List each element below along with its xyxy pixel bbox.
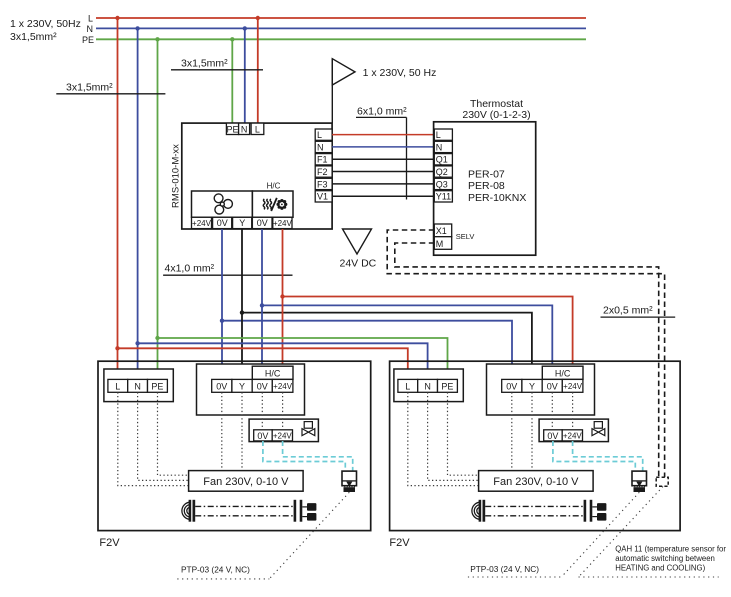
svg-text:Fan 230V, 0-10 V: Fan 230V, 0-10 V: [203, 476, 289, 488]
svg-text:F2V: F2V: [389, 537, 410, 549]
thermostat U2 box: [434, 122, 536, 255]
svg-text:H/C: H/C: [265, 369, 281, 379]
wire F2 to Q2: [332, 171, 434, 173]
unit 1 H/C tab: [252, 366, 293, 379]
terminal RMS F1: [315, 154, 332, 165]
terminal unit1 0V HC: [252, 379, 272, 392]
dotted wire 0V to fan 1: [221, 392, 223, 470]
svg-text:+24V: +24V: [273, 432, 293, 441]
svg-text:PER-08: PER-08: [468, 180, 505, 192]
svg-text:PE: PE: [151, 382, 163, 392]
terminal unit2 Y: [522, 379, 542, 392]
wire cyan valve2 +24V to actuator: [573, 441, 643, 471]
dotted wire L to fan 2: [408, 392, 479, 485]
terminal unit1 0V fan: [212, 379, 232, 392]
svg-text:3x1,5mm²: 3x1,5mm²: [10, 31, 57, 43]
svg-text:0V: 0V: [257, 382, 268, 392]
svg-text:+24V: +24V: [273, 219, 293, 228]
wire F3 to Q3: [332, 183, 434, 185]
unit 2 L/N/PE terminal block: [394, 369, 463, 402]
wire Y drop to unit 1: [240, 229, 244, 379]
unit 1 valve actuator box: [249, 419, 318, 442]
terminal valve1 +24V: [272, 430, 292, 441]
terminal unit2 N: [418, 379, 438, 392]
terminal RMS N right: [315, 141, 332, 152]
node supply flag 1x230V 50Hz: [332, 59, 436, 123]
wire N drop to unit 1: [135, 26, 139, 380]
terminal unit2 +24V: [562, 379, 583, 392]
terminal RMS N top: [239, 123, 250, 134]
dotted wire L to fan 1: [118, 392, 189, 485]
wire PE drop to unit 1: [155, 37, 159, 380]
svg-text:H/C: H/C: [267, 182, 281, 191]
dotted wire Y to fan 2: [531, 392, 533, 470]
block RMS fan output: [192, 191, 253, 217]
dotted wire +24V to valve 2: [572, 392, 574, 430]
label mains supply: [10, 18, 81, 43]
terminal unit2 0V HC: [542, 379, 562, 392]
svg-text:4x1,0 mm²: 4x1,0 mm²: [165, 263, 215, 275]
svg-text:0V: 0V: [547, 431, 558, 441]
terminal RMS L right: [315, 129, 332, 140]
svg-text:Y: Y: [529, 382, 535, 392]
dotted wire PE to fan 2: [448, 392, 479, 475]
unit 1 L/N/PE terminal block: [104, 369, 173, 402]
wire F1 to Q1: [332, 158, 434, 160]
svg-text:230V (0-1-2-3): 230V (0-1-2-3): [462, 109, 530, 121]
terminal RMS Y: [233, 217, 252, 228]
icon valve 1: [302, 422, 315, 436]
svg-text:3x1,5mm²: 3x1,5mm²: [66, 82, 113, 94]
fan coil unit 1 box: [98, 361, 371, 530]
icon heating coil and cooling flower: [263, 198, 287, 211]
svg-text:0V: 0V: [217, 218, 228, 228]
svg-text:0V: 0V: [547, 382, 558, 392]
svg-text:PE: PE: [226, 124, 238, 134]
terminal unit2 PE: [438, 379, 458, 392]
wire L drop to RMS: [256, 16, 260, 124]
svg-text:0V: 0V: [216, 382, 227, 392]
terminal RMS F2: [315, 166, 332, 177]
terminal RMS V1: [315, 191, 332, 202]
svg-text:Y: Y: [239, 218, 245, 228]
sensor QAH 11 box: [656, 477, 668, 486]
svg-text:0V: 0V: [257, 218, 268, 228]
wire +24V drop to unit 1: [280, 229, 284, 379]
label thermostat models: [468, 168, 526, 204]
svg-text:+24V: +24V: [192, 219, 212, 228]
svg-text:Fan 230V, 0-10 V: Fan 230V, 0-10 V: [493, 476, 579, 488]
heating element unit 1: [182, 500, 317, 522]
label thermostat: [462, 98, 530, 121]
wire L bus: [96, 17, 586, 19]
wire PE bus: [96, 38, 586, 40]
dotted leader to QAH 11: [579, 487, 719, 578]
svg-text:F1: F1: [317, 155, 328, 165]
svg-text:3x1,5mm²: 3x1,5mm²: [181, 58, 228, 70]
svg-text:X1: X1: [436, 226, 447, 236]
svg-text:L: L: [115, 382, 120, 392]
dotted wire N to fan 1: [138, 392, 189, 480]
wire N bus: [96, 27, 586, 29]
svg-text:QAH 11 (temperature sensor for: QAH 11 (temperature sensor for: [615, 545, 726, 554]
svg-text:1 x 230V, 50 Hz: 1 x 230V, 50 Hz: [363, 67, 437, 79]
svg-text:N: N: [87, 24, 94, 34]
svg-text:PE: PE: [82, 35, 94, 45]
wire N drop to RMS: [243, 26, 247, 124]
wire 0V fan branch to unit 2: [222, 321, 512, 380]
wire V1 to Y11: [332, 195, 434, 197]
label cable 6x1,0 mm2: [356, 106, 407, 200]
svg-text:1 x 230V, 50Hz: 1 x 230V, 50Hz: [10, 18, 81, 30]
svg-text:6x1,0 mm²: 6x1,0 mm²: [357, 106, 407, 118]
terminal thermostat L: [434, 129, 452, 140]
dotted leader to PTP-03 unit 2: [468, 492, 639, 577]
terminal RMS F3: [315, 178, 332, 189]
svg-text:L: L: [255, 124, 260, 134]
terminal valve2 0V: [544, 430, 563, 441]
fan 1 box: [189, 471, 304, 492]
wire 0V HC drop to unit 1: [260, 229, 264, 379]
wire +24V branch to unit 2: [283, 297, 573, 380]
terminal thermostat Q3: [434, 178, 452, 189]
icon fan propeller: [214, 194, 232, 214]
label cable 3x1,5mm2 to unit 1: [56, 82, 165, 94]
wire N branch to unit 2: [135, 341, 427, 379]
svg-text:24V DC: 24V DC: [340, 258, 377, 270]
terminal valve1 0V: [254, 430, 273, 441]
dotted wire N to fan 2: [428, 392, 479, 480]
terminal thermostat Q2: [434, 166, 452, 177]
wire PE drop to RMS: [230, 37, 234, 124]
svg-text:N: N: [424, 382, 431, 392]
terminal unit1 N: [128, 379, 148, 392]
svg-text:Q1: Q1: [436, 155, 448, 165]
fan coil unit 2 box: [390, 361, 680, 530]
wire cyan valve1 0V to actuator: [263, 441, 345, 471]
terminal RMS +24V left: [192, 217, 212, 228]
svg-text:L: L: [436, 130, 441, 140]
svg-text:PER-07: PER-07: [468, 168, 505, 180]
block RMS heat/cool output: [252, 191, 293, 217]
svg-text:PTP-03 (24 V, NC): PTP-03 (24 V, NC): [470, 564, 539, 574]
svg-text:HEATING and COOLING): HEATING and COOLING): [615, 564, 705, 573]
fan 2 box: [479, 471, 593, 492]
svg-text:F2: F2: [317, 167, 328, 177]
svg-text:V1: V1: [317, 192, 328, 202]
wire 0V HC branch to unit 2: [262, 305, 552, 379]
wire SELV X1 dashed: [387, 230, 664, 477]
wire cyan valve1 +24V to actuator: [283, 441, 353, 471]
dotted wire 0V to valve 1: [261, 392, 263, 430]
svg-text:L: L: [88, 14, 93, 24]
svg-text:RMS-010-M-xx: RMS-010-M-xx: [171, 144, 182, 208]
wire cyan valve2 0V to actuator: [553, 441, 635, 471]
icon valve 2: [592, 422, 605, 436]
wire PE branch to unit 2: [155, 336, 447, 380]
svg-text:L: L: [405, 382, 410, 392]
svg-text:+24V: +24V: [563, 432, 583, 441]
terminal thermostat Y11: [434, 191, 452, 202]
terminal RMS 0V fan: [213, 217, 232, 228]
svg-text:automatic switching between: automatic switching between: [615, 554, 715, 563]
svg-text:SELV: SELV: [456, 232, 475, 241]
controller U1 RMS-010-M-xx: [171, 123, 333, 229]
svg-text:Q2: Q2: [436, 167, 448, 177]
svg-text:+24V: +24V: [273, 382, 293, 391]
svg-text:Y: Y: [239, 382, 245, 392]
svg-text:N: N: [241, 124, 248, 134]
svg-text:PER-10KNX: PER-10KNX: [468, 192, 526, 204]
wire L RMS to thermostat: [332, 134, 434, 136]
label cable 4x1,0 mm2: [163, 263, 292, 276]
terminal thermostat M: [434, 237, 451, 250]
svg-text:PE: PE: [441, 382, 453, 392]
terminal thermostat Q1: [434, 154, 452, 165]
terminal unit1 +24V: [272, 379, 293, 392]
terminal RMS PE: [226, 123, 238, 134]
svg-text:Q3: Q3: [436, 179, 448, 189]
svg-text:F3: F3: [317, 179, 328, 189]
wire L branch to unit 2: [115, 346, 408, 379]
dotted wire 0V to valve 2: [551, 392, 553, 430]
svg-text:N: N: [317, 142, 324, 152]
svg-text:N: N: [134, 382, 141, 392]
dotted wire Y to fan 1: [241, 392, 243, 470]
terminal unit1 PE: [148, 379, 168, 392]
actuator PTP-03 unit 1: [342, 471, 357, 492]
terminal RMS 0V HC: [252, 217, 272, 228]
dotted wire PE to fan 1: [158, 392, 189, 475]
terminal unit2 L: [398, 379, 418, 392]
svg-text:0V: 0V: [506, 382, 517, 392]
terminal unit2 0V fan: [502, 379, 522, 392]
unit 1 control terminal block: [197, 364, 305, 415]
svg-text:Y11: Y11: [436, 192, 451, 202]
svg-text:+24V: +24V: [563, 382, 583, 391]
wire L drop to unit 1: [115, 16, 119, 380]
svg-text:F2V: F2V: [99, 537, 120, 549]
svg-text:PTP-03 (24 V, NC): PTP-03 (24 V, NC): [181, 565, 250, 575]
svg-text:N: N: [436, 142, 443, 152]
svg-text:H/C: H/C: [555, 369, 571, 379]
terminal unit1 L: [108, 379, 128, 392]
wire 0V fan drop to unit 1: [220, 229, 224, 379]
unit 2 control terminal block: [487, 364, 595, 415]
terminal valve2 +24V: [562, 430, 582, 441]
wire N RMS to thermostat: [332, 146, 434, 148]
terminal thermostat N: [434, 141, 452, 152]
actuator PTP-03 unit 2: [632, 471, 647, 492]
terminal thermostat X1: [434, 224, 451, 237]
svg-text:0V: 0V: [257, 431, 268, 441]
unit 2 valve actuator box: [539, 419, 608, 442]
node 24V DC symbol: [340, 229, 377, 270]
label cable 3x1,5mm2 to RMS: [171, 58, 263, 70]
dotted wire +24V to valve 1: [282, 392, 284, 430]
label QAH 11 description: [615, 545, 726, 573]
terminal RMS L top: [251, 123, 264, 134]
terminal RMS +24V HC: [273, 217, 293, 228]
wire SELV M dashed: [395, 243, 659, 477]
svg-text:L: L: [317, 130, 322, 140]
svg-text:M: M: [436, 239, 444, 249]
dotted wire 0V to fan 2: [511, 392, 513, 470]
wire Y branch to unit 2: [242, 313, 532, 380]
svg-text:2x0,5 mm²: 2x0,5 mm²: [603, 305, 653, 317]
heating element unit 2: [472, 500, 607, 522]
unit 2 H/C tab: [542, 366, 583, 379]
label cable 2x0,5 mm2: [601, 305, 676, 318]
terminal unit1 Y: [232, 379, 252, 392]
dotted leader to PTP-03 unit 1: [177, 492, 349, 579]
